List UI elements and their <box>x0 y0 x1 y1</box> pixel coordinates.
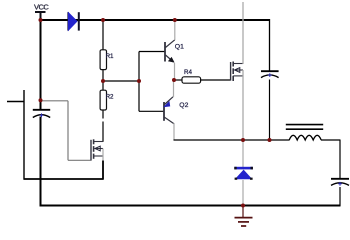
MOSFET Q4 (sync/low-side) <box>91 139 103 160</box>
pin: Q1 collector (grey) <box>174 20 176 40</box>
junction: R1 top at VCC rail <box>101 18 105 22</box>
junction: R1-R2 divider node <box>101 79 105 83</box>
wire: top rail VCC to right corner <box>40 19 270 21</box>
svg-text:R1: R1 <box>106 53 114 60</box>
pin: Q1 emitter (grey) <box>174 63 176 80</box>
wire: R2 bottom lead to Q4 drain <box>102 110 104 119</box>
pin: Q2 collector (grey) <box>173 123 175 140</box>
wire: gate net from VCC node to Q4 gate (grey) <box>41 101 91 161</box>
capacitor C3 (output) <box>331 179 349 186</box>
junction: VCC node <box>39 18 43 22</box>
wire: inductor to output corner <box>321 139 340 141</box>
svg-text:R2: R2 <box>106 94 114 101</box>
wire: R1 top lead <box>102 20 104 50</box>
wire: Q4 source drop <box>102 160 104 180</box>
wire: left input stub <box>7 101 24 103</box>
MOSFET Q3 (main switch) <box>231 62 243 82</box>
wire: node to transistor bases <box>103 80 139 82</box>
wire: Q2 base lead <box>139 110 164 112</box>
VCC power symbol <box>35 12 46 20</box>
junction: base bus node <box>137 79 141 83</box>
capacitor C1 (input electrolytic) <box>33 110 50 118</box>
wire: bottom ground rail <box>40 205 341 207</box>
junction: C2 at output node <box>268 138 272 142</box>
wire: left vertical <box>23 90 25 180</box>
wire: C3 bottom lead <box>339 187 341 206</box>
transistor Q1 (NPN) <box>165 40 175 62</box>
junction: emitters / R4 node <box>172 78 176 82</box>
junction: zener at ground rail <box>241 204 245 208</box>
junction: C1 / gate-net node <box>39 98 43 102</box>
wire: emitters node to R4 <box>174 79 182 81</box>
wire: right corner down to capacitor C2 <box>269 19 271 71</box>
resistor R4 (gate drive) <box>182 77 201 83</box>
wire: R4 to Q3 gate <box>201 79 231 81</box>
junction: Q3 source at output node <box>241 138 245 142</box>
wire: lower-left horizontal to Q4 source <box>24 178 104 180</box>
wire: C2 bottom lead <box>269 80 271 141</box>
zener diode D2 <box>234 140 253 206</box>
ground symbol <box>235 206 253 226</box>
wire: R1/R2 middle node <box>102 70 104 91</box>
wire: VCC vertical rail down to capacitor C1 <box>40 19 42 110</box>
capacitor C2 (snubber) <box>261 71 279 77</box>
pin: Q2 emitter (grey) <box>173 80 175 97</box>
wire: output node horizontal (Q2 collector to inductor) <box>174 139 290 141</box>
resistor R1 <box>100 50 106 70</box>
pin: Q3 drain bus (grey) <box>242 2 244 64</box>
svg-text:Q2: Q2 <box>179 102 188 109</box>
svg-text:Q1: Q1 <box>175 44 184 51</box>
pin: Q3 source bus (grey) <box>242 70 244 140</box>
inductor L1 with core <box>286 125 323 140</box>
wire: base bus vertical <box>138 52 140 112</box>
svg-text:R4: R4 <box>184 69 192 76</box>
svg-text:VCC: VCC <box>34 3 49 12</box>
diode D1 <box>68 12 79 30</box>
junction: Q1 collector at VCC rail <box>173 18 177 22</box>
pin: Q4 source bus (grey) <box>102 149 104 162</box>
wire: C1 bottom lead down to ground rail <box>40 117 42 207</box>
wire: Q1 base lead <box>139 51 165 53</box>
transistor Q2 (PNP) <box>164 97 174 124</box>
resistor R2 <box>100 90 106 110</box>
